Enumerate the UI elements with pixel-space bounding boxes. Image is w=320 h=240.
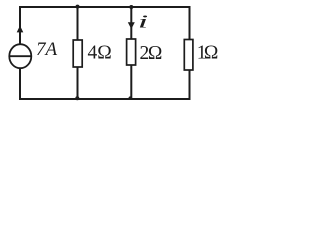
node: top junction of 2-ohm branch: [129, 5, 133, 9]
svg-text:1Ω: 1Ω: [197, 43, 219, 64]
svg-text:i: i: [138, 12, 149, 32]
wire: bottom horizontal net: [19, 98, 190, 100]
current source IS 7A (circle with bar, arrow up on lead): [9, 26, 31, 69]
svg-text:2Ω: 2Ω: [140, 43, 163, 64]
wire: right branch (1-ohm): [189, 6, 191, 100]
svg-text:7A: 7A: [36, 39, 58, 60]
resistor R1 4-ohm box: [73, 40, 82, 67]
node: bottom junction of 2-ohm branch: [129, 96, 133, 100]
current arrow i (down) on 2-ohm branch: [128, 22, 135, 29]
svg-text:4Ω: 4Ω: [88, 43, 112, 64]
wire: left branch (current source leads): [19, 6, 21, 100]
wire: 2-ohm branch: [130, 7, 132, 99]
wire: top horizontal net: [19, 6, 190, 8]
resistor R3 1-ohm box: [184, 40, 193, 71]
node: top junction of 4-ohm branch: [76, 5, 80, 9]
wire: 4-ohm branch: [77, 7, 79, 99]
node: bottom junction of 4-ohm branch: [75, 96, 79, 100]
resistor R2 2-ohm box: [127, 39, 136, 65]
